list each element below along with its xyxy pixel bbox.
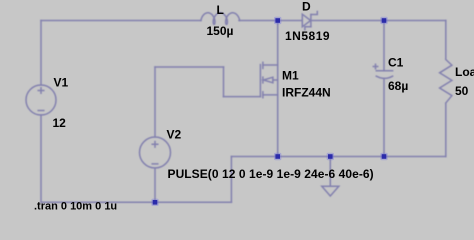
wire ground link column [230,157,232,203]
node junction V2 bottom [153,200,158,205]
wire inductor to diode [239,20,302,22]
svg-text:M1: M1 [282,69,299,83]
voltage source V2 [140,137,171,168]
node halo M1 drain top [274,17,281,24]
wire load top lead [445,21,447,59]
wire mid ground rail [231,156,445,158]
node junction top capacitor [382,18,387,23]
wire capacitor bottom lead [383,78,385,156]
wire gate column [223,67,225,97]
ground [322,157,339,197]
svg-text:V1: V1 [54,76,69,90]
node junction top M1 drain [275,18,280,23]
resistor Load [440,60,452,104]
svg-text:IRFZ44N: IRFZ44N [282,86,331,100]
node junction mid ground [328,154,333,159]
node junction mid capacitor [382,154,387,159]
svg-text:C1: C1 [388,56,404,70]
svg-text:Load: Load [455,65,474,79]
wire V2 minus lead [154,168,156,202]
wire capacitor top lead [383,21,385,71]
transistor M1 [260,62,277,97]
node halo capacitor bottom [380,153,387,160]
node halo M1 source [274,153,281,160]
wire diode to top-right corner [311,20,446,22]
wire V1 minus lead [40,115,42,202]
wire V1 plus lead [40,21,42,86]
capacitor C1 [373,64,392,78]
wire load bottom lead [445,103,447,156]
node halo ground [327,153,334,160]
voltage source V1 [26,85,56,115]
node halo capacitor top [380,17,387,24]
node junction mid M1 source [275,154,280,159]
wire V2 plus lead [154,67,156,137]
inductor L [201,13,240,25]
wire V2 top link [155,66,224,68]
node halo V2 bottom [151,199,158,206]
svg-text:1N5819: 1N5819 [285,29,330,43]
svg-text:D: D [302,0,311,14]
wire top rail left segment [41,20,201,22]
wire gate lead [224,96,261,98]
svg-text:L: L [217,3,224,17]
svg-text:50: 50 [455,84,469,98]
wire M1 drain-source column [277,21,279,157]
svg-text:12: 12 [53,116,67,130]
diode D [302,12,317,30]
svg-text:68µ: 68µ [388,79,408,93]
svg-text:PULSE(0 12 0 1e-9 1e-9 24e-6 4: PULSE(0 12 0 1e-9 1e-9 24e-6 40e-6) [168,167,374,181]
svg-text:.tran 0 10m 0 1u: .tran 0 10m 0 1u [34,201,117,213]
svg-text:V2: V2 [167,128,182,142]
wire bottom rail [41,201,231,203]
svg-text:150µ: 150µ [207,24,234,38]
